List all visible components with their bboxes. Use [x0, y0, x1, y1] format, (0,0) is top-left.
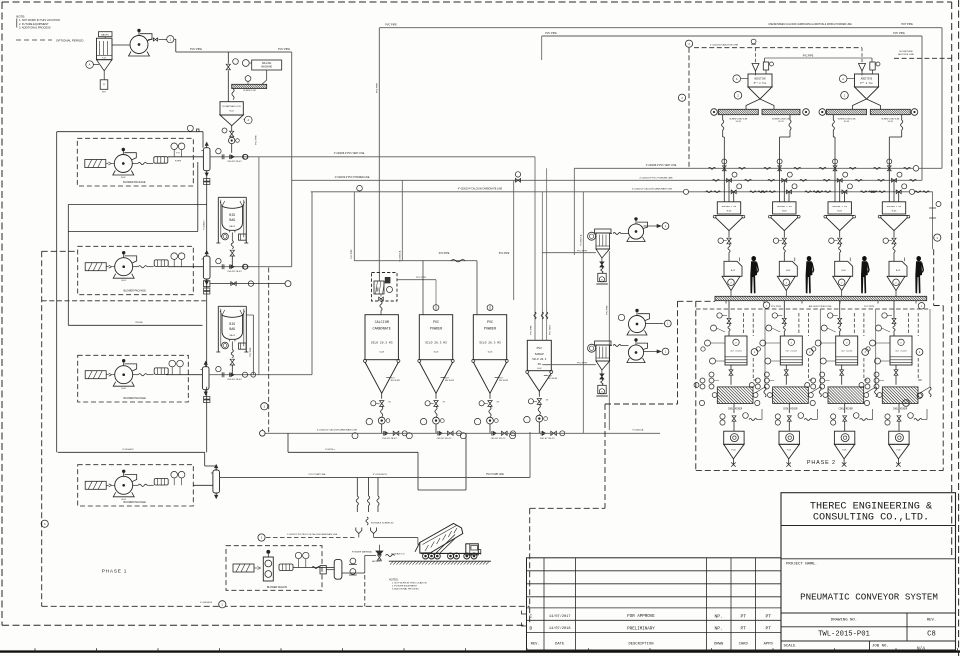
dashed drop to boundary — [364, 575, 366, 606]
phase 1 boundary (dashed) — [41, 251, 43, 606]
discharge box under DC-1 — [103, 71, 105, 80]
svg-text:ROTARY AIR LOCK: ROTARY AIR LOCK — [222, 105, 241, 108]
wire powder line y180.3 — [292, 179, 922, 181]
bag discharge flex — [231, 350, 233, 358]
svg-text:NP.: NP. — [715, 626, 723, 632]
cool mixer discharge — [733, 404, 735, 414]
hopper discharge valves — [728, 231, 730, 238]
return header trunk y325.3 — [68, 324, 202, 326]
svg-text:3. ADDITIONAL PROCESS: 3. ADDITIONAL PROCESS — [392, 588, 419, 591]
feed drop column 1 — [728, 301, 730, 318]
svg-text:BB-0X: BB-0X — [230, 335, 236, 337]
svg-text:4"-020019-P PVC POWDER LINE: 4"-020019-P PVC POWDER LINE — [639, 178, 673, 180]
svg-text:SC-0X: SC-0X — [736, 121, 742, 123]
silo outlet valve train — [538, 391, 540, 397]
wire vent line y156.8 — [210, 156, 535, 158]
silo outlet valve train — [489, 393, 491, 399]
cone level switch — [386, 376, 390, 378]
flexible hose hooks — [356, 528, 362, 534]
svg-text:BIG: BIG — [229, 322, 235, 326]
svg-text:HOT MIXER: HOT MIXER — [730, 350, 742, 353]
instrument A1 on DC-1 — [86, 61, 94, 69]
cool mixer CM-1 — [717, 387, 753, 404]
svg-text:CHKD: CHKD — [739, 643, 749, 647]
svg-text:SCREW CONV 0.3M: SCREW CONV 0.3M — [729, 118, 747, 120]
svg-text:SCREW CONV 0.3M: SCREW CONV 0.3M — [772, 118, 790, 120]
svg-text:PVC PIPE: PVC PIPE — [250, 347, 252, 357]
svg-text:B-0X: B-0X — [786, 270, 791, 272]
wire return header y452.3 — [58, 451, 205, 453]
svg-text:3. ADDITIONAL PROCESS: 3. ADDITIONAL PROCESS — [19, 25, 51, 29]
svg-text:2. FUTURE EQUIPMENT: 2. FUTURE EQUIPMENT — [392, 586, 418, 588]
operators on platform — [751, 256, 756, 261]
cool mixer CM-4 — [882, 387, 918, 404]
svg-text:SILO 20.3 M3: SILO 20.3 M3 — [425, 342, 447, 345]
svg-text:PVC: PVC — [537, 347, 543, 350]
product bin PB-1 — [724, 431, 744, 444]
svg-text:FLEXIBLE SCREW 3m: FLEXIBLE SCREW 3m — [371, 523, 394, 525]
svg-text:COOL MIXER: COOL MIXER — [893, 407, 908, 410]
svg-text:REV.: REV. — [531, 643, 540, 647]
silo outlet valve train — [435, 393, 437, 399]
svg-text:PVC PIPE: PVC PIPE — [606, 305, 608, 315]
wire conveying line 2 y266.7 — [168, 266, 203, 268]
instrument on collector — [588, 344, 596, 352]
drop lines from screw feeders — [722, 115, 724, 120]
svg-text:JOB NO.: JOB NO. — [872, 645, 889, 649]
additive inline filters — [751, 39, 756, 44]
wagon suction filter — [233, 564, 254, 572]
revision row brackets — [522, 611, 527, 627]
collector discharge train — [601, 258, 603, 262]
feed drop column 2 — [783, 301, 785, 318]
product bin PB-4 — [889, 431, 909, 444]
svg-text:2SD BY 2B 4'C: 2SD BY 2B 4'C — [540, 438, 555, 440]
feed drop column 3 — [839, 301, 841, 318]
diverter at collecting line — [352, 433, 358, 439]
collector discharge train — [601, 370, 603, 374]
silo1 top filter assembly (dashed box) — [372, 273, 398, 302]
silo3 inlet — [476, 261, 478, 315]
suction filter — [85, 263, 106, 271]
valve on drop x228.3 — [227, 52, 229, 64]
svg-text:P-020016-A: P-020016-A — [579, 234, 582, 245]
svg-text:CARBONATE: CARBONATE — [373, 327, 391, 331]
svg-text:PVC: PVC — [433, 321, 439, 325]
svg-text:S-0X: S-0X — [488, 352, 493, 354]
phase 2 boundary (dashed) — [695, 301, 697, 470]
svg-text:NO RETURN: NO RETURN — [899, 51, 912, 53]
svg-text:P TI: P TI — [176, 152, 180, 154]
svg-text:1"-020037-P PVC RECYCLE CALCI: 1"-020037-P PVC RECYCLE CALCIUM CARBONAT… — [287, 533, 338, 536]
suction filter — [85, 371, 106, 379]
svg-text:PVC PUMP LINE: PVC PUMP LINE — [486, 474, 504, 476]
svg-text:4"-020025-P PVC VENT LINE: 4"-020025-P PVC VENT LINE — [334, 153, 365, 155]
operating platform — [715, 296, 927, 300]
svg-text:PHASE 2: PHASE 2 — [807, 460, 836, 466]
feed drop column 4 — [893, 301, 895, 318]
wire pvc pump line y477.5 — [220, 477, 531, 479]
flex below valve — [489, 406, 491, 416]
wire hot pipe header y27.7 — [379, 27, 942, 29]
svg-text:TRUNK: TRUNK — [135, 322, 143, 324]
no-return additive line (dashed) — [894, 57, 952, 59]
instrument PI-1 — [148, 39, 153, 41]
wire vent line phase2 y168.3 — [574, 167, 942, 169]
bypass riser BB-2 — [252, 315, 254, 375]
revision table frame — [527, 558, 782, 650]
svg-text:2SD BY 2B 4'C: 2SD BY 2B 4'C — [227, 379, 242, 381]
mid blower with tag — [629, 316, 646, 333]
union pair symbols — [204, 179, 210, 182]
cone level switch — [544, 374, 548, 376]
big bag — [222, 206, 243, 230]
cool mixer CM-3 — [828, 387, 864, 404]
svg-text:PT: PT — [740, 613, 746, 619]
svg-text:P-0X: P-0X — [731, 450, 736, 452]
additive hopper cone and legs — [748, 87, 772, 99]
day hoppers HOPPER 1 M3 — [717, 202, 740, 214]
svg-text:ADDITIVE: ADDITIVE — [754, 78, 766, 81]
svg-text:SILO 20.3: SILO 20.3 — [532, 358, 546, 361]
cone level switch — [495, 376, 499, 378]
standpipe S-4 — [213, 470, 220, 493]
svg-text:ADDITIVE LINE: ADDITIVE LINE — [898, 53, 914, 56]
svg-text:SILO 20.3 M3: SILO 20.3 M3 — [479, 342, 501, 345]
svg-text:SCREW CONV 0.3M: SCREW CONV 0.3M — [838, 118, 856, 120]
svg-text:DATE: DATE — [555, 643, 565, 647]
silencer — [154, 260, 168, 267]
additive hopper cone and legs — [855, 87, 879, 99]
silo outlet valve train — [381, 393, 383, 399]
bottom scan edge line — [0, 650, 960, 652]
svg-text:SC-0X: SC-0X — [778, 121, 784, 123]
wire pvc pipe header y36 — [542, 35, 922, 37]
return header y204.5 — [68, 204, 206, 206]
svg-text:4"-020023-P CALCIUM CARBONAT: 4"-020023-P CALCIUM CARBONATE LINE — [458, 187, 503, 190]
svg-text:PVC: PVC — [487, 321, 493, 325]
svg-text:C8: C8 — [927, 631, 936, 639]
hot mixer discharge — [785, 365, 787, 370]
svg-text:BAG: BAG — [229, 327, 235, 331]
svg-text:HOT PIPE: HOT PIPE — [901, 23, 913, 26]
pvc scrap inlets with flex — [534, 157, 536, 340]
svg-text:PVC PIPE: PVC PIPE — [531, 325, 533, 335]
svg-text:NP.: NP. — [715, 613, 723, 619]
silo cone — [418, 359, 421, 362]
svg-text:NIV 30 M3: NIV 30 M3 — [548, 378, 557, 380]
svg-text:PVC PUMP LINE: PVC PUMP LINE — [309, 474, 326, 476]
standpipe S-1 — [203, 148, 210, 171]
svg-text:B-0X: B-0X — [121, 177, 126, 179]
return header y231.5 — [68, 231, 198, 233]
svg-text:S-0X: S-0X — [537, 368, 542, 370]
blower package enclosure (dashed) — [78, 246, 194, 294]
svg-text:BAGFIL: BAGFIL — [101, 34, 110, 37]
hot mixer HM-1 — [725, 336, 747, 365]
svg-text:PVC PIPE: PVC PIPE — [190, 47, 202, 51]
svg-text:2SD BY 2B 4'C: 2SD BY 2B 4'C — [382, 438, 397, 440]
svg-text:PT: PT — [765, 626, 771, 632]
bag discharge valve — [230, 250, 234, 256]
rotary air lock hopper — [220, 102, 243, 115]
wire PVC pipe header y52 — [176, 51, 292, 53]
silencer — [154, 479, 168, 486]
phase2 vent manifold fittings — [722, 159, 727, 164]
svg-text:PNEUMATIC CONVEYOR SYSTEM: PNEUMATIC CONVEYOR SYSTEM — [800, 592, 938, 603]
svg-text:B-0X: B-0X — [842, 270, 847, 272]
big bag — [222, 315, 243, 339]
wagon instruments — [295, 552, 301, 558]
svg-text:SCREW CONV 0.3M: SCREW CONV 0.3M — [881, 118, 899, 120]
svg-text:NIV 30 M3: NIV 30 M3 — [445, 380, 454, 382]
instrument on collector — [588, 232, 596, 240]
product bin PB-3 — [834, 431, 854, 444]
svg-text:HOPPER 1 M3: HOPPER 1 M3 — [887, 205, 902, 208]
svg-text:SCREW 2.5M: SCREW 2.5M — [243, 90, 256, 92]
wagon silencer — [279, 564, 293, 571]
instruments PI TI on BP-1 discharge — [168, 156, 203, 158]
svg-text:P-0X: P-0X — [896, 450, 901, 452]
riser x583.3 — [582, 192, 584, 433]
svg-text:B-0X: B-0X — [896, 270, 901, 272]
svg-text:HOPPER 1 M3: HOPPER 1 M3 — [777, 205, 792, 208]
svg-text:PRELIMINARY: PRELIMINARY — [627, 627, 655, 631]
svg-text:APPD: APPD — [764, 643, 774, 647]
svg-text:4"-020040-P: 4"-020040-P — [122, 449, 134, 451]
svg-text:P-020024: P-020024 — [204, 220, 206, 230]
milling machine — [252, 60, 282, 70]
flow element tag right side — [932, 192, 934, 250]
silo cone — [472, 359, 475, 362]
svg-text:4"-020023-P CALCIUM CARBONATE: 4"-020023-P CALCIUM CARBONATE LINE — [317, 429, 358, 432]
wagon line instruments — [350, 558, 356, 564]
silo inlet header y260.7 — [354, 260, 477, 262]
svg-text:SC-0X: SC-0X — [844, 121, 850, 123]
air vent pipes line (dashed) — [696, 308, 930, 310]
svg-text:4"-020019-P PVC POWDER LINE: 4"-020019-P PVC POWDER LINE — [335, 177, 370, 179]
riser x942 — [941, 28, 943, 169]
svg-text:PVC VENT: PVC VENT — [550, 324, 552, 335]
silo3 top vent — [487, 305, 493, 311]
svg-text:ADDITIVE: ADDITIVE — [861, 78, 873, 81]
svg-text:BLOWER WAGON: BLOWER WAGON — [267, 586, 288, 589]
silo vessel — [527, 340, 551, 370]
svg-text:POWDER: POWDER — [484, 327, 496, 331]
dashed recycle line right of wagon — [266, 537, 356, 539]
svg-text:SC-0X: SC-0X — [888, 121, 894, 123]
roots blower — [115, 476, 133, 494]
svg-text:BB-0X: BB-0X — [230, 226, 236, 228]
hot mixer HM-4 — [890, 336, 912, 365]
screw feeders under additive hoppers — [718, 109, 758, 114]
svg-text:4"-020019-P%: 4"-020019-P% — [373, 474, 387, 476]
cool mixer discharge — [788, 404, 790, 414]
svg-text:AIR VENT PIPES LINE: AIR VENT PIPES LINE — [809, 305, 832, 308]
rotary valve — [433, 417, 440, 424]
roots blower — [114, 155, 132, 173]
additive day hopper — [855, 74, 879, 87]
silo2 top vent — [433, 305, 439, 311]
diverter valve cluster — [216, 258, 221, 263]
silo vessel — [473, 315, 506, 360]
phase2 carbonate manifold fittings — [737, 184, 742, 189]
product bin PB-2 — [779, 431, 799, 444]
wire conveying line 3 y374.7 — [166, 374, 202, 376]
svg-text:N/A: N/A — [917, 647, 925, 652]
flex connector — [138, 266, 147, 268]
svg-text:COOL MIXER: COOL MIXER — [839, 407, 854, 410]
svg-text:H-0X: H-0X — [837, 211, 842, 213]
standpipe S-3 — [202, 367, 209, 390]
svg-text:SILO 20.3 M3: SILO 20.3 M3 — [371, 342, 393, 345]
phase boundary dashed connector — [529, 508, 531, 625]
hot mixer HM-3 — [836, 336, 858, 365]
svg-text:2SD BY 2B 4'C: 2SD BY 2B 4'C — [491, 438, 506, 440]
blower package enclosure (dashed) — [78, 465, 194, 506]
svg-text:PVC PIPE: PVC PIPE — [351, 249, 353, 259]
screw conveyor SC-0 — [232, 84, 267, 88]
svg-text:B-0X: B-0X — [121, 388, 126, 390]
riser x922 — [921, 36, 923, 180]
svg-text:P-02023-x: P-02023-x — [325, 449, 336, 451]
svg-text:PVC PIPE: PVC PIPE — [545, 32, 557, 35]
svg-text:P-020024-A: P-020024-A — [398, 250, 401, 261]
svg-text:F-PIPE: F-PIPE — [175, 161, 182, 163]
ground hatch under truck — [389, 560, 491, 562]
dust collector DC-1 — [99, 32, 113, 37]
left suction mains — [56, 132, 58, 453]
svg-text:BIG: BIG — [229, 213, 235, 217]
svg-text:BLOWER PACKAGE: BLOWER PACKAGE — [123, 290, 146, 293]
valve on powder line — [515, 178, 520, 182]
rotary valve — [378, 417, 385, 424]
diverter valve cluster — [216, 149, 221, 154]
svg-text:P-020023-A: P-020023-A — [633, 429, 644, 432]
svg-text:HOT MIXER: HOT MIXER — [841, 350, 853, 353]
big bag unloading frame — [218, 305, 246, 307]
svg-text:BLOWER PACKAGE: BLOWER PACKAGE — [123, 181, 146, 184]
svg-text:HOPPER 1 M3: HOPPER 1 M3 — [722, 205, 737, 208]
svg-text:2SD BY 2B 4'C: 2SD BY 2B 4'C — [227, 161, 242, 163]
bag discharge flex — [231, 241, 233, 249]
svg-text:H-0X: H-0X — [782, 211, 787, 213]
riser x312 carbonate feed — [311, 192, 313, 375]
flex below valve — [538, 404, 540, 414]
svg-text:MACHINE: MACHINE — [261, 66, 272, 69]
rotary valve — [536, 415, 543, 422]
svg-text:P** 2 Ton: P** 2 Ton — [754, 82, 767, 85]
riser x541.7 — [541, 36, 543, 60]
svg-text:PT: PT — [740, 626, 746, 632]
svg-text:PVC PIPE: PVC PIPE — [803, 55, 814, 57]
inter-hopper pvc pipe — [765, 57, 872, 59]
svg-text:B: B — [529, 626, 532, 632]
phase2 powder manifold fittings — [732, 172, 737, 177]
flex connector — [138, 162, 147, 164]
cool mixer CM-2 — [773, 387, 809, 404]
svg-text:PVC PIPE: PVC PIPE — [577, 250, 588, 252]
silo cone — [526, 370, 529, 373]
rotary valve — [487, 417, 494, 424]
flex below valve — [381, 406, 383, 416]
bag discharge instruments — [222, 342, 229, 349]
truck unloading funnel and valve — [378, 545, 380, 551]
svg-text:OPTIONAL PERIOD: OPTIONAL PERIOD — [56, 38, 84, 42]
wire carbonate line y191.8 — [311, 191, 933, 193]
svg-text:S-0X: S-0X — [434, 352, 439, 354]
suction filter — [85, 160, 106, 168]
additive feed valve on hopper top — [763, 62, 768, 70]
riser x513.7 — [513, 180, 515, 300]
svg-text:H-0X: H-0X — [892, 211, 897, 213]
svg-text:14/07/2018: 14/07/2018 — [549, 626, 571, 631]
svg-text:NOTES:: NOTES: — [389, 578, 399, 581]
suction filter — [85, 481, 106, 489]
svg-text:SCALE: SCALE — [784, 645, 797, 649]
dump truck (tipped) — [420, 524, 463, 554]
additive feed valve on hopper top — [870, 62, 875, 70]
svg-text:CONSULTING CO.,LTD.: CONSULTING CO.,LTD. — [813, 513, 929, 524]
bag discharge valve — [230, 359, 234, 365]
svg-text:POWDER MATERIAL: POWDER MATERIAL — [352, 551, 373, 554]
svg-text:FOR APPROVE: FOR APPROVE — [627, 615, 655, 619]
wire collecting line y433.3 — [265, 432, 660, 434]
cone level switch — [441, 376, 445, 378]
valves under rotary air lock — [231, 126, 233, 131]
diverter at collecting line — [460, 433, 466, 439]
svg-text:M3: M3 — [538, 363, 542, 366]
svg-text:CALCIUM: CALCIUM — [375, 321, 389, 325]
svg-text:PVC PIPE: PVC PIPE — [577, 362, 588, 364]
title block frame — [781, 493, 956, 650]
additive day hopper — [748, 74, 772, 87]
svg-text:B-0X: B-0X — [731, 270, 736, 272]
wagon twin-lobe blower — [263, 557, 273, 581]
truck wheels — [423, 553, 429, 559]
cool mixer discharge — [844, 404, 846, 414]
silencer — [154, 368, 168, 375]
vent dust collector — [595, 341, 611, 345]
svg-text:P-0X: P-0X — [842, 450, 847, 452]
additive line (dashed) — [688, 48, 690, 169]
svg-text:1. NOT WORK IN THIS LOCATION: 1. NOT WORK IN THIS LOCATION — [19, 18, 60, 22]
svg-text:P** 2 Ton: P** 2 Ton — [860, 82, 873, 85]
silo1 inlet riser — [353, 192, 355, 261]
junction drop x258.9 — [258, 157, 260, 375]
hot mixer discharge — [730, 365, 732, 370]
svg-text:HOT MIXER: HOT MIXER — [895, 350, 907, 353]
svg-text:B-0X: B-0X — [121, 499, 126, 501]
svg-text:4"-020040-N: 4"-020040-N — [200, 602, 212, 604]
truck blow line — [374, 537, 418, 539]
svg-text:2SD BY 2B 4'C: 2SD BY 2B 4'C — [437, 438, 452, 440]
svg-text:HOPPER 1 M3: HOPPER 1 M3 — [832, 205, 847, 208]
optional dashed line y300.8 — [42, 300, 206, 302]
svg-text:DRAWING NO.: DRAWING NO. — [831, 619, 857, 623]
svg-text:SCRAP: SCRAP — [535, 353, 544, 356]
vent line from silo1 filter y279.7 — [397, 279, 436, 281]
svg-text:BAG: BAG — [229, 218, 235, 222]
svg-text:PVC PIPE: PVC PIPE — [439, 253, 450, 255]
diverter at collecting line — [406, 433, 412, 439]
blower package enclosure (dashed) — [77, 138, 193, 186]
receiver after wagon — [322, 567, 334, 569]
svg-text:PT: PT — [765, 613, 771, 619]
svg-text:H-0X: H-0X — [727, 211, 732, 213]
riser x609.3 — [608, 251, 610, 430]
standpipe S-2 — [203, 256, 210, 279]
